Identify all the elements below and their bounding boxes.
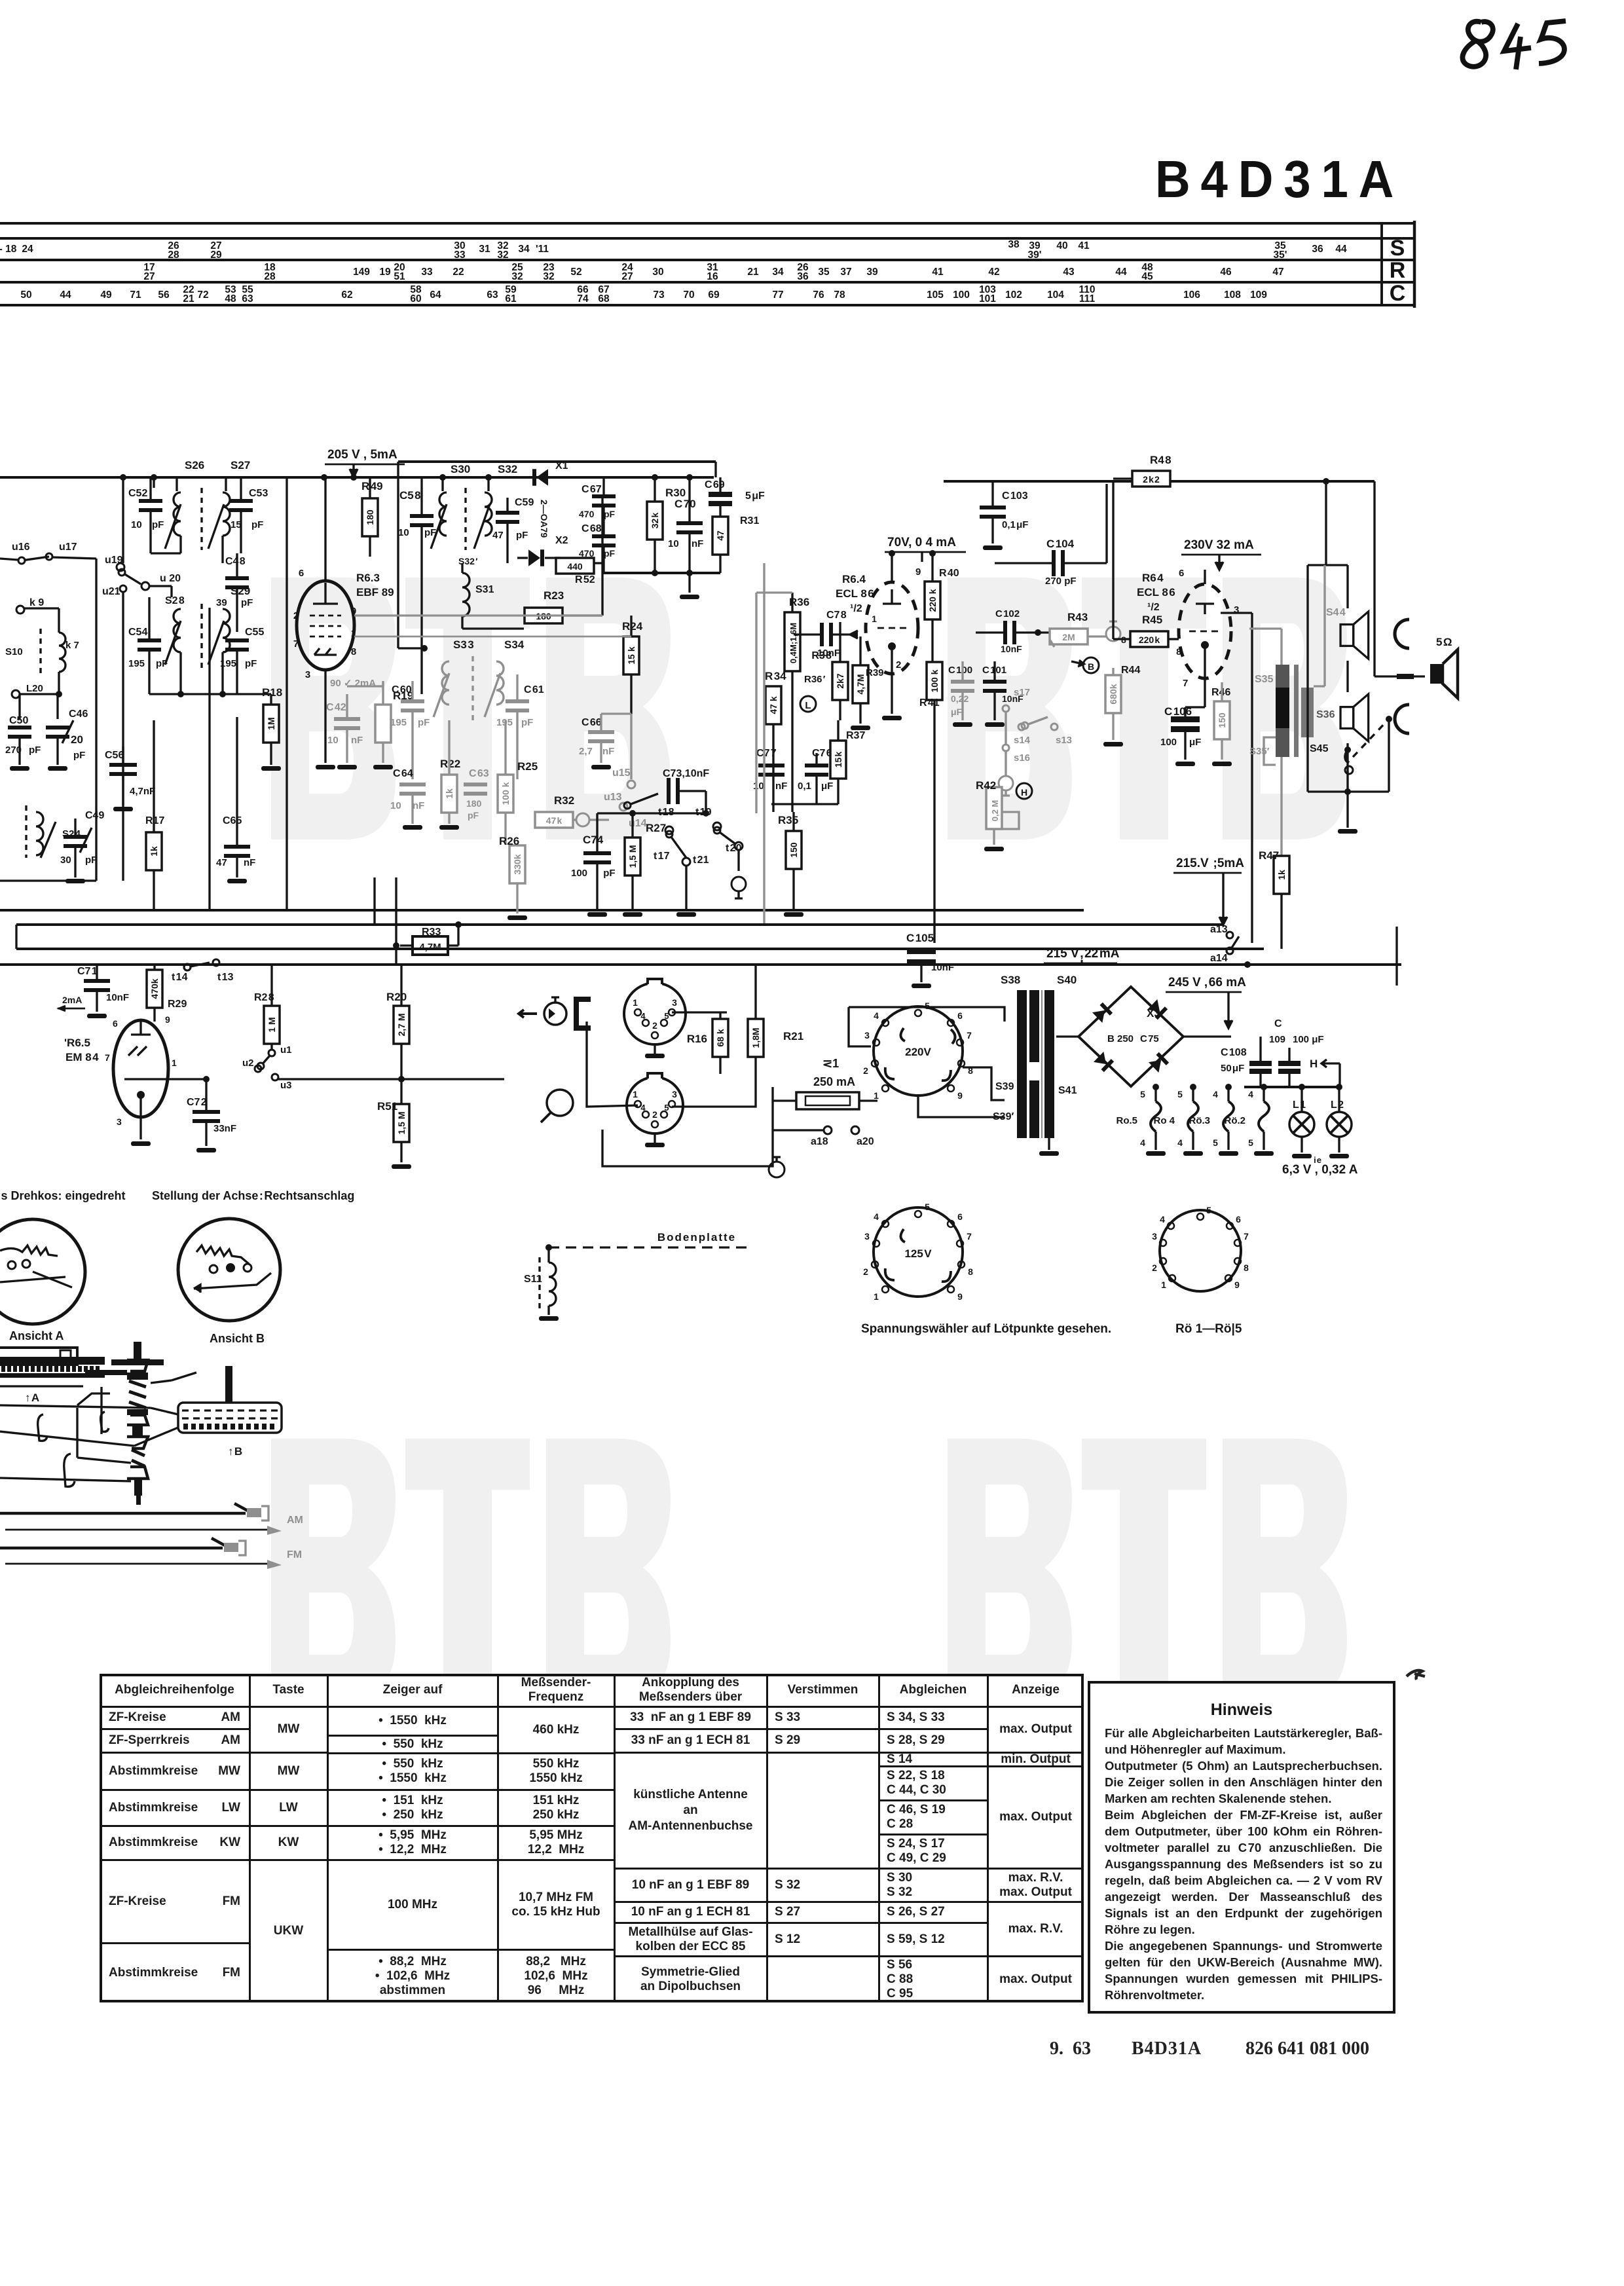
svg-text:9: 9 [165,1014,170,1025]
svg-text:C 102: C 102 [995,608,1020,619]
svg-text:39: 39 [216,597,227,608]
svg-text:R17: R17 [145,815,164,826]
svg-text:61: 61 [505,293,517,304]
svg-text:33nF: 33nF [213,1123,236,1134]
svg-text:C 100: C 100 [948,665,972,676]
svg-text:R27: R27 [646,822,666,834]
svg-text:R25: R25 [517,760,538,773]
svg-text:R6.4: R6.4 [842,573,866,585]
svg-text:10: 10 [390,800,401,811]
svg-text:1,5 M: 1,5 M [627,845,638,868]
svg-text:S11: S11 [524,1274,542,1285]
svg-text:'R6.5: 'R6.5 [64,1037,90,1049]
svg-text:43: 43 [1063,267,1075,278]
svg-text:S27: S27 [231,459,250,471]
svg-text:270: 270 [5,745,22,756]
svg-text:Ro.5: Ro.5 [1116,1115,1137,1126]
svg-text:0,2 M: 0,2 M [990,800,1000,822]
svg-text:106: 106 [1183,289,1200,301]
svg-text:1: 1 [874,1291,879,1302]
svg-text:C4 8: C4 8 [225,556,246,567]
svg-text:7: 7 [293,638,299,650]
svg-text:7: 7 [1183,678,1188,689]
svg-text:15 k: 15 k [833,752,843,768]
svg-text:S35: S35 [1255,674,1274,685]
svg-text:AM: AM [287,1515,303,1526]
svg-text:nF: nF [775,781,787,792]
svg-text:a20: a20 [857,1136,874,1147]
svg-text:5: 5 [925,1202,930,1212]
svg-text:73: 73 [653,289,665,301]
svg-text:1: 1 [633,997,638,1008]
svg-text:6,3 V , 0,32 A: 6,3 V , 0,32 A [1282,1163,1358,1177]
svg-text:195: 195 [390,717,407,728]
svg-text:C 70: C 70 [674,498,696,510]
svg-text:C59: C59 [515,497,534,508]
svg-text:C56: C56 [105,750,124,761]
svg-text:71: 71 [130,289,141,301]
svg-text:4: 4 [1177,1137,1183,1148]
svg-text:2—OA79: 2—OA79 [539,500,549,538]
svg-text:pF: pF [29,745,41,756]
svg-text:10: 10 [753,781,764,792]
svg-text:ECL 8 6: ECL 8 6 [1137,586,1175,599]
svg-text:1M: 1M [266,717,276,729]
svg-text:k 9: k 9 [29,597,44,608]
svg-text:R37: R37 [846,730,865,741]
svg-text:pF: pF [604,509,616,519]
svg-text:C 63: C 63 [469,768,489,779]
svg-text:35: 35 [818,267,830,278]
svg-text:64: 64 [430,289,441,301]
svg-text:0,1: 0,1 [798,781,811,792]
svg-text:78: 78 [834,289,845,301]
svg-text:R16: R16 [687,1033,707,1045]
svg-text:6: 6 [113,1018,118,1029]
svg-text:nF: nF [413,800,424,811]
svg-text:1: 1 [351,628,356,639]
svg-text:R42: R42 [976,779,996,792]
svg-text:50: 50 [20,289,31,301]
svg-text:S40: S40 [1057,974,1077,986]
svg-text:6: 6 [957,1211,963,1222]
svg-text:C 69: C 69 [705,479,725,490]
svg-text:2: 2 [863,1266,868,1277]
svg-text:k 7: k 7 [65,640,79,651]
svg-text:4: 4 [874,1211,879,1222]
svg-text:R23: R23 [544,589,564,602]
svg-text:5: 5 [664,1011,669,1021]
svg-text:8: 8 [351,646,356,657]
svg-text:R29: R29 [168,999,187,1010]
svg-text:s16: s16 [1014,752,1030,764]
svg-text:2 k 2: 2 k 2 [1143,474,1160,485]
svg-text:R 40: R 40 [939,568,959,579]
svg-text:470: 470 [579,509,595,519]
svg-text:u14: u14 [629,818,647,829]
svg-text:44: 44 [1115,267,1127,278]
svg-text:C 60: C 60 [392,684,412,695]
svg-text:5 Ω: 5 Ω [1436,636,1452,648]
svg-text:32: 32 [497,249,508,261]
svg-text:2: 2 [293,610,299,621]
svg-text:2,7: 2,7 [579,746,593,757]
svg-text:S35′: S35′ [1249,746,1270,757]
svg-text:S39′: S39′ [993,1111,1014,1122]
svg-text:1k: 1k [1276,870,1287,880]
svg-text:39: 39 [866,267,878,278]
svg-text:C7 8: C7 8 [826,610,847,621]
svg-text:28: 28 [168,249,179,261]
svg-text:¹/2: ¹/2 [1147,602,1160,613]
svg-text:R26: R26 [499,835,519,847]
svg-text:EM 8 4: EM 8 4 [65,1051,99,1063]
svg-text:42: 42 [988,267,999,278]
svg-text:30: 30 [652,267,663,278]
svg-text:Bodenplatte: Bodenplatte [657,1231,736,1244]
svg-text:S29: S29 [231,585,250,597]
svg-text:111: 111 [1079,293,1096,304]
svg-text:H: H [1310,1058,1318,1070]
svg-text:t 14: t 14 [172,972,188,983]
svg-text:32: 32 [511,271,523,282]
svg-text:R39: R39 [866,667,884,678]
svg-text:FM: FM [287,1549,302,1560]
svg-text:6: 6 [957,1010,963,1021]
svg-text:50 μF: 50 μF [1221,1063,1244,1074]
svg-text:S2 8: S2 8 [165,595,185,606]
svg-text:R6 4: R6 4 [1142,572,1164,584]
svg-text:1,8M: 1,8M [750,1027,761,1048]
svg-text:5: 5 [664,1103,669,1113]
svg-text:0,22: 0,22 [951,693,969,704]
svg-text:Ansicht B: Ansicht B [210,1332,265,1345]
svg-text:R45: R45 [1142,614,1162,626]
svg-text:68: 68 [598,293,610,304]
svg-text:s13: s13 [1056,735,1072,746]
svg-text:C7 1: C7 1 [77,966,98,977]
svg-text:2: 2 [863,1065,868,1076]
svg-text:4: 4 [640,1011,646,1021]
svg-text:3: 3 [864,1030,870,1041]
svg-text:1: 1 [871,614,877,624]
svg-text:C5 8: C5 8 [399,489,421,502]
svg-text:u16: u16 [12,542,30,553]
svg-text:nF: nF [602,746,614,757]
svg-text:220V: 220V [905,1046,931,1058]
svg-text:s17: s17 [1014,687,1030,698]
svg-text:52: 52 [570,267,581,278]
svg-text:68 k: 68 k [715,1029,726,1046]
svg-text:R: R [1390,258,1406,283]
svg-text:10: 10 [668,538,679,549]
svg-text:22: 22 [452,267,464,278]
svg-text:L20: L20 [26,683,43,694]
svg-text:s14: s14 [1014,735,1031,746]
svg-text:2: 2 [1152,1263,1157,1273]
svg-text:49: 49 [100,289,112,301]
svg-text:36: 36 [1312,244,1323,255]
svg-text:8: 8 [1121,635,1126,645]
svg-text:1: 1 [172,1058,177,1068]
svg-text:24: 24 [22,244,33,255]
svg-text:44: 44 [60,289,71,301]
svg-text:Ro 4: Ro 4 [1153,1115,1175,1126]
svg-text:C 103: C 103 [1002,490,1028,502]
svg-text:R24: R24 [622,620,643,633]
svg-text:27: 27 [621,271,633,282]
svg-text:77: 77 [772,289,783,301]
svg-text:47: 47 [216,857,227,868]
svg-text:a13: a13 [1210,924,1228,935]
svg-text:R35: R35 [778,814,798,826]
svg-text:62: 62 [341,289,352,301]
svg-text:40: 40 [1056,240,1067,251]
svg-text:C: C [1274,1018,1282,1029]
svg-text:15 k: 15 k [626,646,637,664]
svg-text:a18: a18 [811,1136,828,1147]
svg-text:10nF: 10nF [1001,644,1022,654]
svg-text:nF: nF [244,857,255,868]
svg-text:195: 195 [128,658,145,669]
svg-text:3: 3 [117,1116,122,1127]
svg-text:R20: R20 [386,991,407,1003]
svg-text:u3: u3 [280,1080,292,1091]
svg-text:37: 37 [840,267,851,278]
svg-text:R6.3: R6.3 [356,572,380,584]
svg-text:7: 7 [967,1030,972,1041]
svg-text:7: 7 [967,1231,972,1242]
svg-text:0,1 μF: 0,1 μF [1002,519,1028,530]
svg-text:pF: pF [152,519,164,530]
svg-text:32 k: 32 k [650,513,660,529]
svg-text:70: 70 [683,289,694,301]
svg-text:B 250: B 250 [1107,1033,1134,1044]
svg-text:31: 31 [479,244,490,255]
svg-text:5: 5 [1213,1137,1218,1148]
svg-text:C74: C74 [583,834,604,846]
svg-text:Rö.2: Rö.2 [1224,1115,1246,1126]
svg-text:2,7 M: 2,7 M [396,1013,407,1036]
svg-text:EBF 89: EBF 89 [356,586,394,599]
svg-text:C 61: C 61 [524,684,544,695]
svg-text:C54: C54 [128,627,147,638]
svg-text:S36: S36 [1316,709,1335,720]
svg-text:R4 8: R4 8 [1150,454,1172,466]
svg-text:47: 47 [715,530,726,541]
svg-text:10: 10 [327,735,339,746]
svg-text:100 k: 100 k [929,669,940,692]
svg-text:100: 100 [571,868,587,879]
svg-text:R47: R47 [1259,849,1279,862]
svg-text:8: 8 [1175,646,1181,657]
svg-text:470k: 470k [149,978,160,999]
svg-text:109: 109 [1250,289,1267,301]
svg-text:34: 34 [518,244,530,255]
svg-text:45: 45 [1141,271,1153,282]
svg-text:C53: C53 [249,488,268,499]
svg-text:1: 1 [874,1090,879,1101]
svg-text:- 18: - 18 [0,244,17,255]
svg-text:Rö.3: Rö.3 [1189,1115,1210,1126]
svg-text:21: 21 [747,267,759,278]
svg-text:28: 28 [264,271,276,282]
svg-text:S26: S26 [185,459,204,471]
svg-text:6: 6 [299,568,304,579]
svg-text:108: 108 [1224,289,1241,301]
svg-text:29: 29 [210,249,222,261]
svg-text:5: 5 [1140,1089,1145,1099]
svg-text:C52: C52 [128,488,147,499]
svg-text:pF: pF [251,519,263,530]
svg-text:51: 51 [394,271,405,282]
svg-text:C50: C50 [9,715,28,726]
svg-text:C7 2: C7 2 [187,1097,207,1108]
svg-text:180: 180 [466,798,482,809]
svg-text:27: 27 [143,271,155,282]
svg-text:1k: 1k [444,788,454,799]
svg-text:5: 5 [1177,1089,1183,1099]
svg-text:S: S [1390,236,1405,261]
svg-text:u15: u15 [612,767,631,779]
svg-text:9: 9 [915,566,921,578]
svg-text:1,5 M: 1,5 M [396,1111,407,1134]
svg-text:220 k: 220 k [927,589,938,612]
svg-text:47 k: 47 k [768,696,779,714]
svg-text:u13: u13 [604,792,622,803]
svg-text:C 67: C 67 [581,484,602,495]
svg-text:35': 35' [1274,249,1287,261]
svg-text:4,7M: 4,7M [855,674,866,694]
svg-text:pF: pF [516,530,528,541]
svg-text:4: 4 [1213,1089,1218,1099]
svg-text:s Drehkos: eingedreht: s Drehkos: eingedreht [0,1189,126,1202]
svg-text:R44: R44 [1121,665,1140,676]
svg-text:B: B [1088,661,1094,672]
svg-text:u 20: u 20 [160,573,181,584]
svg-text:X1: X1 [555,460,568,471]
svg-text:R 49: R 49 [361,480,383,492]
svg-text:440: 440 [567,561,583,572]
svg-text:C46: C46 [69,709,88,720]
svg-text:30: 30 [60,855,71,866]
svg-text:C 108: C 108 [1221,1047,1247,1058]
svg-text:C 104: C 104 [1046,538,1075,550]
svg-text:150: 150 [788,842,799,858]
svg-text:6: 6 [1236,1214,1241,1225]
svg-text:44: 44 [1335,244,1347,255]
svg-text:R51: R51 [377,1100,397,1113]
svg-text:u2: u2 [242,1058,254,1069]
svg-text:pF: pF [85,855,97,866]
svg-text:63: 63 [487,289,498,301]
svg-text:nF: nF [351,735,363,746]
svg-text:10: 10 [131,519,142,530]
svg-text:149: 149 [353,267,370,278]
svg-text:9: 9 [957,1090,963,1101]
svg-text:20: 20 [71,733,83,746]
svg-text:μF: μF [1189,737,1201,748]
svg-text:72: 72 [197,289,208,301]
svg-text:u19: u19 [105,555,123,566]
svg-text:39': 39' [1028,249,1042,261]
svg-text:47: 47 [1272,267,1283,278]
svg-text:3: 3 [864,1231,870,1242]
svg-text:5: 5 [925,1001,930,1011]
svg-text:56: 56 [158,289,170,301]
svg-text:L 1: L 1 [1293,1099,1306,1111]
svg-text:Rö 1—Rö|5: Rö 1—Rö|5 [1175,1322,1242,1336]
svg-text:Ansicht A: Ansicht A [9,1329,64,1342]
svg-text:pF: pF [245,658,257,669]
svg-text:R36 ′: R36 ′ [804,674,826,685]
svg-text:0,4M;1,6M: 0,4M;1,6M [788,623,798,663]
svg-text:pF: pF [521,717,533,728]
svg-text:X2: X2 [555,535,568,546]
svg-text:100 μF: 100 μF [1293,1034,1324,1045]
svg-text:u17: u17 [59,542,77,553]
svg-text:100: 100 [1160,737,1177,748]
svg-text:C7 6: C7 6 [812,748,832,759]
svg-text:16: 16 [707,271,718,282]
svg-text:↑ B: ↑ B [228,1445,242,1458]
svg-text:C 66: C 66 [581,717,602,728]
svg-text:'11: '11 [536,244,549,255]
svg-text:R21: R21 [783,1030,803,1042]
svg-text:S34: S34 [504,638,525,651]
svg-text:R31: R31 [740,515,759,526]
svg-text:105: 105 [927,289,944,301]
svg-text:a14: a14 [1210,953,1228,964]
svg-text:⋜1: ⋜1 [822,1057,839,1070]
svg-text:245 V , 66 mA: 245 V , 66 mA [1168,976,1246,989]
svg-text:5: 5 [1248,1137,1253,1148]
svg-text:R 52: R 52 [575,574,595,585]
svg-text:4,7nF: 4,7nF [130,786,155,797]
svg-text:↑ A: ↑ A [25,1392,39,1404]
svg-text:C 64: C 64 [393,768,413,779]
svg-text:76: 76 [813,289,824,301]
svg-text:4: 4 [640,1103,646,1113]
svg-text:60: 60 [410,293,421,304]
svg-text:C 105: C 105 [906,932,934,944]
svg-text:S31: S31 [475,584,494,595]
svg-text:Spannungswähler auf Lötpunkte: Spannungswähler auf Lötpunkte gesehen. [861,1322,1111,1336]
svg-text:125 V: 125 V [904,1247,932,1260]
svg-text:4: 4 [1140,1137,1145,1148]
svg-text:48: 48 [225,293,236,304]
svg-text:μF: μF [821,781,833,792]
svg-text:220 k: 220 k [1139,635,1160,645]
svg-text:pF: pF [73,750,85,761]
svg-text:3: 3 [672,1089,677,1099]
svg-text:41: 41 [932,267,944,278]
svg-text:46: 46 [1220,267,1232,278]
svg-text:R43: R43 [1067,611,1088,623]
svg-text:C7 7: C7 7 [756,748,777,759]
svg-text:100 k: 100 k [500,782,511,805]
svg-text:pF: pF [241,597,253,608]
svg-text:205 V , 5mA: 205 V , 5mA [327,448,397,462]
svg-text:R 41: R 41 [919,697,940,709]
svg-text:2: 2 [896,659,901,671]
svg-text:8: 8 [968,1266,973,1277]
svg-text:5: 5 [1206,1205,1211,1215]
svg-text:1 M: 1 M [267,1017,277,1032]
svg-text:21: 21 [183,293,194,304]
svg-text:63: 63 [242,293,253,304]
svg-text:C73,10nF: C73,10nF [663,768,709,779]
